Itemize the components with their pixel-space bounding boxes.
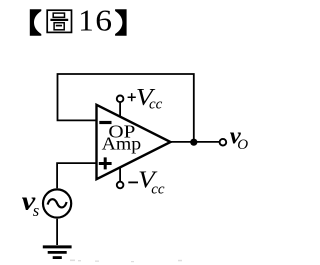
label +Vcc plus sign [128,93,136,101]
source Vs AC circle [43,189,71,217]
svg-text:cc: cc [149,97,163,113]
svg-text:s: s [33,201,39,220]
node junction dot [190,139,197,146]
wire non-inverting input to source [57,163,96,188]
title right lenticular bracket 】 [115,9,127,35]
op-amp non-inverting input plus sign [99,157,112,169]
svg-text:1: 1 [78,3,94,38]
wire feedback loop: inverting input to top rail to output node [58,74,194,142]
svg-text:cc: cc [151,182,165,198]
wire output from apex to terminal [171,141,220,143]
op-amp inverting input minus sign [99,121,111,124]
terminal -Vcc circle [117,182,124,189]
svg-text:6: 6 [95,3,112,38]
svg-text:O: O [237,137,248,153]
title left lenticular bracket 【 [30,9,42,35]
wire +Vcc stem [119,103,121,117]
op-amp U1 triangle [97,105,171,179]
faint cut-off text specks at bottom edge [70,260,182,263]
label -Vcc minus sign [128,181,138,183]
terminal +Vcc circle [117,96,124,103]
title CJK character 圖 (drawn) [47,10,71,32]
ground symbol [43,245,72,248]
wire -Vcc stem [119,167,121,181]
svg-text:Amp: Amp [102,133,142,153]
terminal output open circle [220,139,227,146]
wire source to ground [56,219,58,245]
source sine wave [48,199,67,207]
